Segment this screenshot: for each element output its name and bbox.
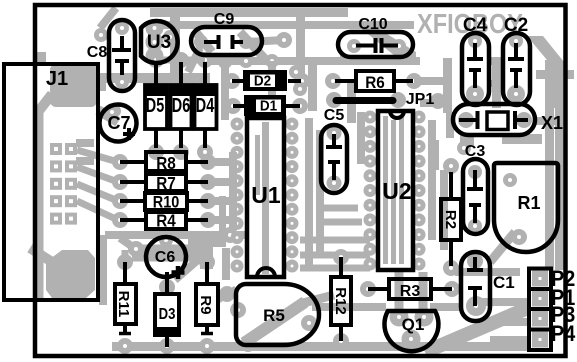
svg-text:R5: R5 — [263, 306, 285, 325]
svg-text:R1: R1 — [517, 193, 540, 213]
diode D5 — [154, 62, 158, 85]
capacitor C1 — [461, 252, 490, 321]
IC U3 (TO-92) — [141, 21, 178, 63]
svg-text:U2: U2 — [382, 178, 411, 204]
resistor R3 — [368, 287, 389, 291]
svg-text:C4: C4 — [463, 15, 488, 36]
copper trace: into C7 — [98, 110, 118, 122]
copper traces: R1 area — [490, 232, 515, 262]
pin header P3 — [529, 309, 551, 330]
copper trace: vertical left of C4 — [443, 58, 452, 113]
copper trace: horizontal under U3 and diode row — [98, 73, 210, 83]
resistor R5 — [236, 284, 319, 345]
capacitor C6 — [146, 237, 186, 277]
copper trace: top horizontal bus 2 — [150, 21, 414, 29]
pads and traces of U2 — [364, 111, 377, 124]
IC U1 — [247, 118, 284, 277]
pin header P2 — [529, 269, 551, 290]
svg-text:R12: R12 — [332, 287, 349, 315]
svg-text:R6: R6 — [365, 73, 385, 92]
svg-text:R8: R8 — [156, 153, 176, 173]
capacitor C3 — [463, 159, 488, 234]
copper trace: horizontal above D2 — [210, 57, 420, 65]
pads of R6 — [325, 73, 341, 89]
svg-text:C3: C3 — [465, 143, 486, 160]
capacitor C9 — [191, 27, 262, 55]
resistor R10 — [120, 199, 145, 203]
svg-text:R10: R10 — [153, 193, 180, 211]
svg-text:C2: C2 — [504, 15, 528, 36]
pads of C4 and C2 — [468, 34, 482, 48]
copper trace: top-right diagonal — [527, 36, 564, 108]
transistor Q1 — [384, 311, 438, 351]
svg-text:Q1: Q1 — [402, 315, 425, 334]
copper traces: J1 to resistor bus — [77, 150, 118, 162]
J1 connector pin pads — [50, 143, 62, 155]
resistor R9 — [205, 262, 209, 284]
pads right of resistor stack — [200, 154, 216, 170]
copper trace: mid horizontal bus — [105, 231, 248, 239]
svg-text:C6: C6 — [155, 249, 176, 266]
svg-text:D4: D4 — [196, 94, 215, 117]
pads of C5 — [327, 126, 342, 141]
svg-text:X1: X1 — [541, 113, 563, 133]
copper pour: J1 bottom blob — [46, 250, 95, 298]
capacitor C10 — [338, 32, 413, 57]
svg-text:C5: C5 — [324, 107, 345, 124]
svg-text:JP1: JP1 — [406, 91, 435, 108]
copper trace: right edge vertical — [545, 60, 554, 270]
resistor R11 — [123, 262, 127, 284]
diode D2 — [232, 79, 245, 83]
svg-text:C9: C9 — [214, 11, 235, 28]
svg-text:U1: U1 — [251, 182, 281, 208]
copper trace: J1 inner vertical — [36, 105, 44, 301]
copper traces: right of U2 — [428, 120, 436, 240]
svg-text:R2: R2 — [442, 210, 459, 229]
pads of R11 D3 R9 top — [117, 254, 133, 270]
resistor R7 — [120, 180, 146, 184]
copper traces: channel between U1 and U2 — [305, 118, 313, 268]
pads of C8 — [115, 21, 129, 35]
jumper JP1 — [336, 97, 393, 104]
resistor R4 — [120, 218, 146, 222]
resistor R1 — [494, 163, 558, 252]
pin header P4 — [529, 330, 551, 351]
resistor R6 — [335, 79, 356, 83]
diode D6 — [179, 62, 183, 85]
resistor R2 — [449, 172, 453, 199]
pads of C3 — [468, 165, 482, 179]
diode D1 — [233, 104, 246, 108]
pads of R2 — [443, 158, 459, 174]
pads of diodes D5 D6 D4 — [148, 52, 164, 68]
pads of U3 — [146, 19, 164, 37]
svg-text:R11: R11 — [115, 291, 132, 318]
pads of C9 — [194, 35, 208, 49]
pin header P1 — [529, 289, 551, 309]
pin header pad squares — [532, 271, 548, 287]
svg-text:D2: D2 — [254, 73, 271, 90]
pads of C1 — [467, 253, 483, 269]
crystal X1 — [453, 104, 535, 135]
svg-text:D1: D1 — [260, 98, 277, 115]
pads of R3 — [360, 281, 376, 297]
IC U2 — [378, 111, 413, 270]
pads of D2 and D1 — [224, 73, 240, 89]
capacitor C7 — [100, 105, 137, 142]
svg-text:C1: C1 — [493, 273, 515, 292]
copper traces: feeds to pin header — [455, 268, 520, 276]
via pad near C8 — [94, 28, 108, 42]
pads and traces of U1 — [231, 118, 244, 131]
copper pour: J1 top blob — [50, 64, 97, 107]
capacitor C5 — [321, 125, 347, 193]
svg-text:R9: R9 — [197, 295, 214, 314]
copper traces: fingers from resistor bus to U1 — [208, 158, 233, 166]
capacitor C4 — [462, 33, 489, 105]
resistor R12 — [339, 257, 343, 277]
copper trace: J1 diagonal — [38, 94, 52, 112]
copper trace: horizontal through C6 — [132, 245, 200, 262]
svg-text:D3: D3 — [159, 306, 176, 323]
diode D3 — [165, 272, 169, 294]
pads of JP1 — [326, 92, 342, 108]
svg-text:C8: C8 — [87, 44, 108, 61]
svg-text:D5: D5 — [146, 94, 165, 117]
resistor R8 — [120, 160, 146, 164]
svg-text:R4: R4 — [156, 210, 176, 230]
copper stub at left board edge — [36, 52, 46, 62]
copper trace: T junction near R9 top — [200, 239, 213, 269]
pad inside C7 — [109, 105, 121, 117]
svg-text:C10: C10 — [358, 16, 387, 33]
svg-text:J1: J1 — [46, 68, 68, 90]
svg-text:P4: P4 — [551, 322, 576, 346]
svg-text:R7: R7 — [156, 173, 176, 193]
copper trace: bottom horizontal bus — [112, 342, 528, 351]
capacitor C8 — [109, 20, 135, 91]
svg-text:D6: D6 — [172, 94, 191, 117]
svg-text:R3: R3 — [400, 283, 421, 300]
svg-text:U3: U3 — [147, 32, 171, 53]
diode D4 — [203, 62, 207, 85]
copper trace: top horizontal bus 1 — [150, 8, 348, 17]
connector J1 outline — [4, 64, 98, 300]
copper trace: diagonal inside R5 — [244, 302, 305, 343]
copper trace: diagonal under C10 — [352, 21, 416, 61]
pads of X1 — [458, 112, 474, 128]
pads of C10 — [347, 39, 361, 53]
pads of Q1 — [390, 308, 409, 327]
pads of R12 — [333, 249, 349, 265]
capacitor C2 — [503, 33, 530, 105]
